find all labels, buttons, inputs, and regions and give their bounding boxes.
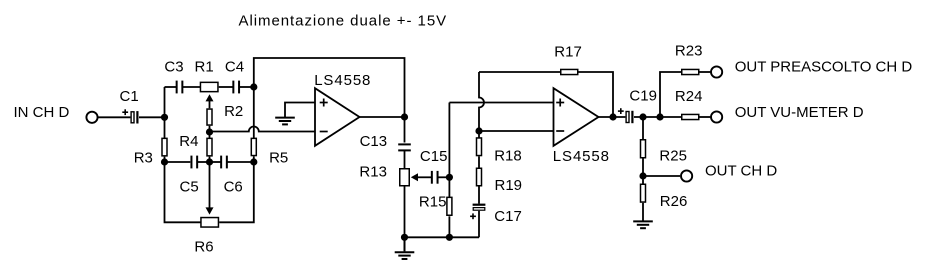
- wire R15 to ground rail: [448, 216, 450, 237]
- op-amp U2 minus input sign: [556, 130, 564, 132]
- wire C3 to R1: [183, 86, 200, 88]
- wire ground rail up to C17: [478, 211, 480, 238]
- terminal OUT VU-METER: [711, 111, 722, 122]
- wire feedback rail up-across-down to op1 output: [254, 58, 405, 117]
- resistor R26: [641, 184, 646, 202]
- wire R13 wiper to C15: [417, 176, 431, 178]
- capacitor C3: [177, 81, 183, 94]
- wire R17 row right down to output: [579, 72, 614, 117]
- wire R17 left leg with crossover hop: [479, 72, 484, 131]
- svg-text:R24: R24: [675, 88, 703, 105]
- wire R4 to C5-C6 node: [209, 157, 211, 162]
- op-amp U2 LS4558 triangle: [554, 88, 599, 146]
- svg-text:R23: R23: [675, 43, 703, 60]
- node C15-R15 junction: [446, 174, 453, 181]
- wire C19 to output bus: [634, 116, 681, 118]
- input terminal IN CH D: [86, 112, 97, 123]
- svg-text:R19: R19: [495, 177, 523, 194]
- node op2 output junction: [609, 113, 616, 120]
- node divider junction: [639, 113, 646, 120]
- svg-text:C13: C13: [360, 133, 388, 150]
- potentiometer R6 body: [201, 218, 219, 228]
- capacitor C13: [398, 144, 411, 150]
- svg-text:R5: R5: [269, 149, 288, 166]
- wire node to R18: [478, 131, 480, 138]
- svg-text:LS4558: LS4558: [314, 72, 371, 89]
- node C5-C6-wiper junction: [206, 158, 213, 165]
- svg-text:R4: R4: [179, 133, 198, 150]
- wire plus node vertical: [448, 103, 450, 178]
- resistor R15: [447, 197, 452, 215]
- wire C4 to feedback node: [240, 86, 254, 88]
- resistor R5: [251, 138, 256, 155]
- wire R1 wiper to R2: [209, 100, 211, 108]
- wire C15 to op2 plus node: [438, 176, 449, 178]
- wire R5 to C6 node: [253, 156, 255, 162]
- potentiometer R1 body: [200, 82, 218, 91]
- node ground rail junction at R15: [446, 234, 453, 241]
- svg-text:R25: R25: [659, 147, 687, 164]
- wire C5 to center node: [198, 161, 210, 163]
- svg-text:C3: C3: [164, 58, 183, 75]
- wire R6 wiper from C5-C6 node: [209, 162, 211, 209]
- svg-text:R1: R1: [195, 58, 214, 75]
- wire R3 node to C5: [165, 161, 191, 163]
- op-amp U1 plus input sign: [320, 99, 328, 107]
- node preascolto branch junction: [656, 113, 663, 120]
- resistor R4: [207, 138, 212, 156]
- node feedback junction: [250, 83, 257, 90]
- resistor R19: [477, 168, 482, 186]
- R1 wiper arrow: [206, 94, 214, 101]
- svg-text:R15: R15: [419, 193, 447, 210]
- wire op2 inverting input line: [479, 130, 554, 132]
- wire R24 to terminal: [700, 116, 712, 118]
- svg-text:OUT VU-METER D: OUT VU-METER D: [735, 104, 864, 121]
- wire ground rail: [405, 236, 480, 238]
- node op1 output junction: [401, 113, 408, 120]
- C1 plus sign: [122, 109, 128, 115]
- wire R3 node down and across to R6: [165, 162, 201, 222]
- node input junction: [161, 114, 168, 121]
- svg-text:R17: R17: [554, 44, 582, 61]
- svg-text:R26: R26: [660, 193, 688, 210]
- resistor R24: [682, 114, 699, 119]
- wire input terminal to C1: [98, 116, 130, 118]
- resistor R25: [641, 140, 646, 158]
- svg-text:C5: C5: [180, 179, 199, 196]
- svg-text:R2: R2: [224, 103, 243, 120]
- capacitor C1: [131, 111, 137, 123]
- ground below R13 column: [395, 252, 415, 259]
- svg-text:LS4558: LS4558: [553, 148, 610, 165]
- capacitor C4: [233, 81, 239, 94]
- svg-text:C4: C4: [225, 58, 244, 75]
- wire feedback node down to R5: [253, 87, 255, 138]
- terminal OUT CH D: [681, 170, 692, 181]
- wire C13 to R13: [404, 150, 406, 168]
- capacitor C6: [221, 156, 227, 169]
- node R3-C5 junction: [161, 158, 168, 165]
- wire R17 row left: [479, 71, 560, 73]
- resistor R2: [207, 109, 212, 125]
- potentiometer R13 body: [400, 169, 410, 186]
- wire op2 non-inverting input line: [449, 102, 553, 104]
- svg-text:C6: C6: [224, 179, 243, 196]
- capacitor C15: [432, 171, 438, 184]
- svg-text:Alimentazione duale +- 15V: Alimentazione duale +- 15V: [239, 12, 448, 29]
- wire R19 to C17: [478, 187, 480, 204]
- svg-text:R6: R6: [194, 239, 213, 256]
- wire op1 inverting input line with crossover hop: [210, 127, 316, 132]
- resistor R3: [162, 138, 167, 156]
- svg-text:OUT CH D: OUT CH D: [705, 163, 777, 180]
- svg-text:R13: R13: [359, 163, 387, 180]
- wire R26 to ground: [642, 203, 644, 221]
- wire R3 to C5 node: [164, 157, 166, 162]
- op-amp U1 LS4558 triangle: [315, 88, 360, 146]
- wire R23 to terminal: [700, 71, 712, 73]
- svg-text:C17: C17: [494, 208, 522, 225]
- wire out node down to R26: [642, 176, 644, 184]
- svg-text:R3: R3: [134, 149, 153, 166]
- resistor R18: [477, 138, 482, 156]
- svg-text:R18: R18: [494, 148, 522, 165]
- svg-text:C19: C19: [629, 87, 657, 104]
- wire R13 down to ground rail: [404, 187, 406, 238]
- resistor R23: [682, 69, 699, 74]
- wire op1 non-inverting input to ground: [285, 103, 315, 118]
- C19 plus sign: [618, 108, 624, 114]
- wire input node up to C3 row and down to R3: [164, 87, 166, 138]
- ground below R26: [633, 221, 653, 228]
- ground at op1 non-inverting input: [275, 118, 295, 125]
- wire R2 to R2-R4 node: [209, 126, 211, 138]
- svg-text:OUT PREASCOLTO CH D: OUT PREASCOLTO CH D: [735, 58, 913, 75]
- wire ground stem mid: [404, 237, 406, 251]
- node ground rail junction at C13 column: [401, 234, 408, 241]
- R13 wiper arrow: [411, 173, 418, 181]
- svg-text:C1: C1: [120, 88, 139, 105]
- wire C6 to R5 node: [227, 161, 254, 163]
- wire input node to C3: [165, 86, 177, 88]
- node R2-R4 junction: [206, 128, 213, 135]
- wire R25 to out node: [642, 159, 644, 177]
- wire out node to terminal: [643, 175, 680, 177]
- svg-text:C15: C15: [420, 148, 448, 165]
- resistor R17: [561, 69, 578, 74]
- svg-text:IN CH D: IN CH D: [14, 104, 70, 121]
- wire op1 output down to C13: [404, 117, 406, 143]
- op-amp U2 plus input sign: [556, 99, 564, 107]
- terminal OUT PREASCOLTO: [711, 66, 722, 77]
- wire op1 output: [360, 116, 405, 118]
- wire center node to C6: [210, 161, 221, 163]
- node op2 inverting junction: [475, 127, 482, 134]
- R6 wiper arrow: [206, 207, 214, 214]
- C17 plus sign: [470, 213, 476, 219]
- op-amp U1 minus input sign: [320, 131, 328, 133]
- wire op2 output: [599, 116, 626, 118]
- wire branch up to R23 row: [660, 72, 681, 117]
- capacitor C17 polarized: [473, 205, 486, 211]
- wire divider node down to R25: [642, 117, 644, 140]
- wire R6 to R5 branch: [219, 162, 254, 222]
- wire plus node down to R15: [448, 177, 450, 197]
- capacitor C19: [626, 111, 632, 123]
- wire C1 to input node: [139, 116, 165, 118]
- node R25-R26 junction: [639, 172, 646, 179]
- wire R1 to C4: [219, 86, 233, 88]
- wire R18 to R19: [478, 156, 480, 167]
- node R5-C6 junction: [250, 158, 257, 165]
- capacitor C5: [191, 156, 197, 169]
